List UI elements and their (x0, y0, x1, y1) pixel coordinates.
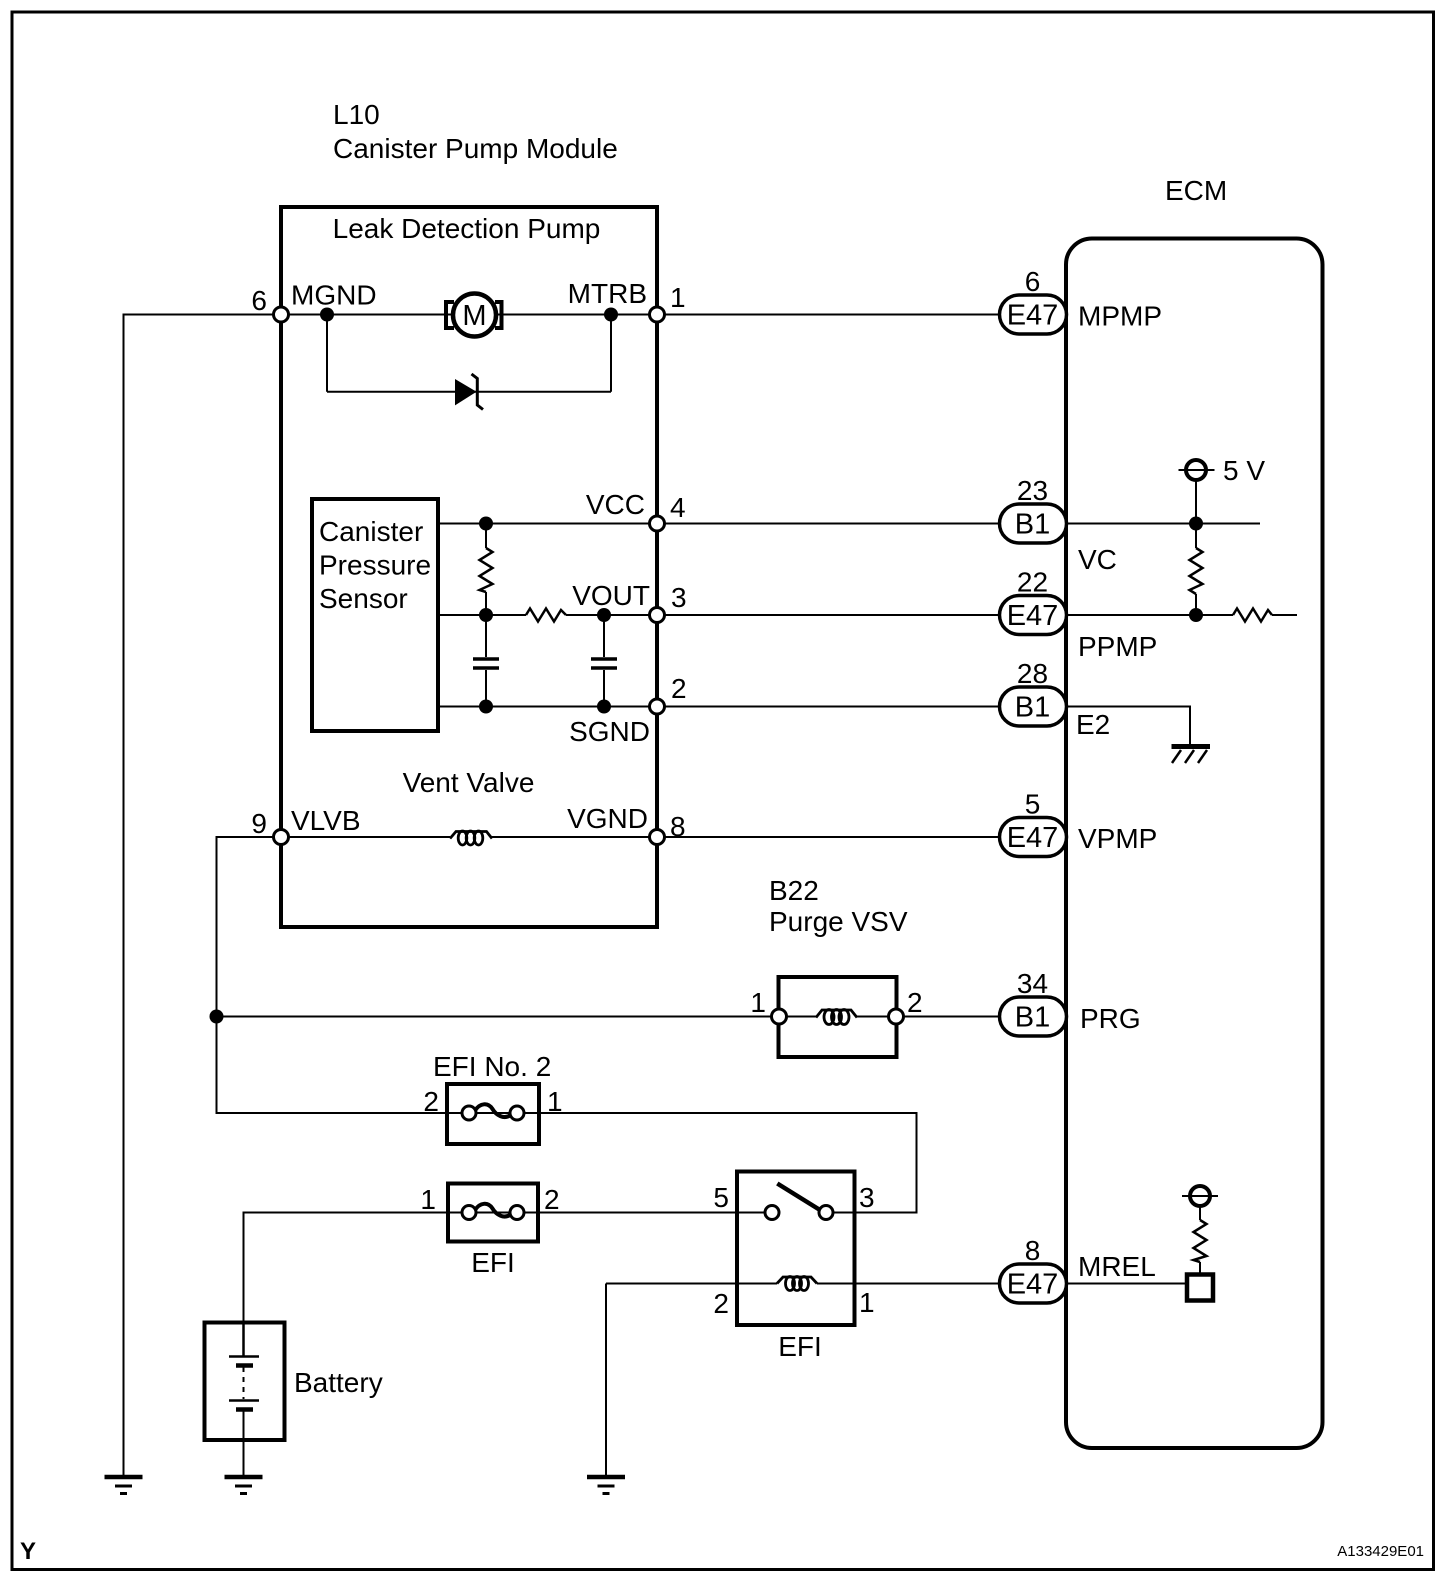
capacitor C2 (591, 659, 617, 668)
svg-text:SGND: SGND (569, 716, 650, 747)
wire VOUT row (438, 614, 1000, 616)
svg-text:ECM: ECM (1165, 175, 1227, 206)
svg-text:22: 22 (1017, 567, 1048, 598)
svg-text:E47: E47 (1007, 600, 1059, 632)
svg-text:4: 4 (670, 492, 686, 523)
svg-text:Battery: Battery (294, 1367, 383, 1398)
junction VOUT-C2 (597, 608, 611, 622)
inductor vent valve coil (450, 831, 492, 845)
svg-text:E47: E47 (1007, 1269, 1059, 1301)
svg-text:M: M (462, 300, 486, 332)
svg-text:MPMP: MPMP (1078, 301, 1162, 332)
diode zener D1 (455, 374, 483, 410)
svg-text:Canister Pump Module: Canister Pump Module (333, 133, 618, 164)
wire EFI fuse pin 2 to relay pin 5 (539, 1212, 772, 1214)
svg-text:34: 34 (1017, 968, 1048, 999)
relay EFI box (737, 1172, 855, 1326)
connector E47 pin 5 VPMP (1000, 789, 1067, 857)
pin 1 purge VSV (772, 1009, 787, 1024)
svg-text:2: 2 (671, 673, 687, 704)
svg-text:E47: E47 (1007, 300, 1059, 332)
svg-text:Leak Detection Pump: Leak Detection Pump (333, 213, 601, 244)
junction SGND-C2 (597, 700, 611, 714)
purge VSV B22 box (779, 977, 897, 1057)
svg-text:VGND: VGND (567, 803, 648, 834)
motor M (446, 294, 502, 337)
svg-text:MGND: MGND (291, 280, 377, 311)
svg-text:Canister: Canister (319, 516, 423, 547)
fuse EFI (448, 1184, 538, 1242)
svg-text:B1: B1 (1015, 692, 1050, 724)
svg-text:5: 5 (713, 1182, 729, 1213)
svg-text:L10: L10 (333, 99, 380, 130)
wire MREL row (606, 1283, 1187, 1285)
svg-text:1: 1 (859, 1287, 875, 1318)
5V supply (1179, 460, 1215, 524)
ignition switch symbol MREL (1182, 1186, 1218, 1301)
pin 2 purge VSV (889, 1009, 904, 1024)
svg-text:A133429E01: A133429E01 (1337, 1543, 1424, 1560)
wire MTRB row MGND-motor-MTRB-pin1-E47 (281, 314, 1000, 316)
ECM box (1066, 239, 1323, 1449)
connector E47 pin 8 MREL (1000, 1235, 1067, 1303)
wire VLVB to EFI No.2 fuse (217, 837, 448, 1113)
svg-text:EFI: EFI (778, 1331, 822, 1362)
junction VOUT-pullup (479, 608, 493, 622)
svg-text:23: 23 (1017, 475, 1048, 506)
svg-text:8: 8 (670, 811, 686, 842)
svg-text:Sensor: Sensor (319, 583, 408, 614)
svg-text:Purge VSV: Purge VSV (769, 906, 908, 937)
connector B1 pin 23 VC (1000, 475, 1067, 543)
resistor sensor pullup (480, 548, 493, 592)
svg-text:Vent Valve: Vent Valve (403, 767, 535, 798)
junction MGND (320, 308, 334, 322)
ground battery (225, 1477, 263, 1494)
svg-text:3: 3 (671, 582, 687, 613)
pin 3 VOUT (650, 608, 665, 623)
junction PPMP (1189, 608, 1203, 622)
wire battery to EFI fuse pin 1 (244, 1213, 448, 1323)
resistor VC to PPMP (1190, 524, 1203, 616)
svg-text:VPMP: VPMP (1078, 823, 1157, 854)
pin 4 VCC (650, 516, 665, 531)
wire VC inside ECM (1066, 523, 1260, 525)
ground relay (587, 1477, 625, 1494)
svg-text:E2: E2 (1076, 709, 1110, 740)
svg-text:PPMP: PPMP (1078, 631, 1157, 662)
svg-text:1: 1 (420, 1184, 436, 1215)
svg-text:E47: E47 (1007, 822, 1059, 854)
connector B1 pin 28 E2 (1000, 658, 1067, 726)
wire SGND row (438, 706, 1000, 708)
svg-text:Y: Y (20, 1538, 36, 1565)
wire sensor pullup branch (485, 524, 487, 707)
svg-text:MTRB: MTRB (568, 278, 647, 309)
battery (205, 1323, 285, 1477)
svg-text:VCC: VCC (586, 489, 645, 520)
pin 8 VGND (650, 830, 665, 845)
svg-text:PRG: PRG (1080, 1003, 1141, 1034)
wire relay coil pin2 to ground (605, 1284, 607, 1477)
svg-text:B1: B1 (1015, 509, 1050, 541)
Leak Detection Pump box (281, 207, 657, 927)
svg-text:Pressure: Pressure (319, 550, 431, 581)
svg-text:2: 2 (544, 1184, 560, 1215)
wire diode branch (327, 315, 611, 392)
svg-text:9: 9 (251, 808, 267, 839)
pin 1 MTRB (650, 307, 665, 322)
relay switch (765, 1184, 833, 1220)
svg-text:VLVB: VLVB (291, 805, 361, 836)
junction PRG branch (210, 1010, 224, 1024)
svg-text:2: 2 (713, 1288, 729, 1319)
inductor purge VSV coil (816, 1010, 857, 1025)
fuse EFI No. 2 (447, 1084, 539, 1144)
capacitor C1 (473, 659, 499, 668)
svg-text:VC: VC (1078, 544, 1117, 575)
svg-text:1: 1 (750, 987, 766, 1018)
wire EFI No.2 fuse to relay pin 3 (539, 1113, 917, 1213)
svg-text:2: 2 (907, 987, 923, 1018)
svg-text:3: 3 (859, 1182, 875, 1213)
resistor sensor output (526, 609, 566, 622)
svg-text:EFI No. 2: EFI No. 2 (433, 1051, 551, 1082)
svg-text:1: 1 (547, 1086, 563, 1117)
svg-text:MREL: MREL (1078, 1251, 1156, 1282)
wire VCC row (438, 523, 1000, 525)
svg-text:6: 6 (1025, 266, 1041, 297)
svg-text:EFI: EFI (471, 1247, 515, 1278)
wire VGND row (281, 836, 1000, 838)
resistor PPMP (1233, 609, 1272, 622)
wire E2 to chassis ground (1066, 707, 1190, 745)
connector E47 pin 22 PPMP (1000, 567, 1067, 635)
wire PRG row (217, 1016, 1001, 1018)
svg-text:8: 8 (1025, 1235, 1041, 1266)
chassis ground E2 (1172, 747, 1211, 764)
junction VC (1189, 517, 1203, 531)
connector B1 pin 34 PRG (1000, 968, 1067, 1036)
svg-text:5 V: 5 V (1223, 455, 1265, 486)
pin 6 MGND (274, 307, 289, 322)
ground left (105, 1477, 143, 1494)
wire PPMP inside ECM (1066, 614, 1297, 616)
svg-text:6: 6 (251, 285, 267, 316)
svg-text:5: 5 (1025, 789, 1041, 820)
connector E47 pin 6 MPMP (1000, 266, 1067, 334)
svg-text:B22: B22 (769, 875, 819, 906)
pin 2 SGND (650, 699, 665, 714)
pin 9 VLVB (274, 830, 289, 845)
svg-text:B1: B1 (1015, 1002, 1050, 1034)
relay coil (777, 1277, 817, 1291)
junction SGND-C1 (479, 700, 493, 714)
junction VCC-pullup (479, 517, 493, 531)
svg-text:2: 2 (423, 1086, 439, 1117)
svg-text:28: 28 (1017, 658, 1048, 689)
junction MTRB (604, 308, 618, 322)
wire VOUT cap branch (603, 615, 605, 707)
svg-text:1: 1 (670, 282, 686, 313)
canister pressure sensor box (312, 499, 438, 731)
svg-text:VOUT: VOUT (572, 580, 650, 611)
wire MGND pin6 to left ground (124, 315, 282, 1477)
